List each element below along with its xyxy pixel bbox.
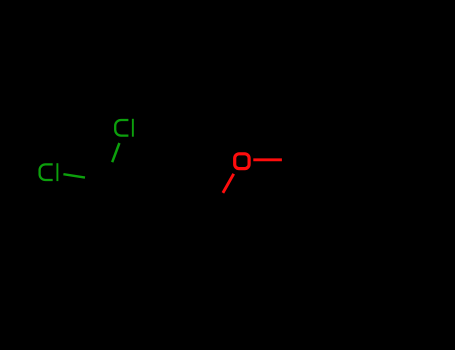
bond C1-O (carbon half): [217, 193, 223, 204]
bond C2-C1: [167, 196, 217, 204]
bond O-phenyl (red half, horizontal): [253, 158, 282, 161]
atom Cl (left): letter C: [40, 164, 53, 180]
invisible carbon skeleton (black on black): bond C3=C2 double: [107, 133, 389, 246]
bond C1-O (red half, diagonal): [223, 174, 234, 193]
benzene ring: [291, 133, 389, 246]
atom Cl (top): letter C: [115, 120, 128, 136]
atom O: ring glyph: [235, 154, 249, 169]
bond Cl(left)-C3 (green half): [63, 174, 85, 177]
bond Cl(top)-C3 (green half): [112, 143, 119, 162]
bond O-phenyl (carbon half): [282, 160, 291, 162]
atom Cl (top): letter l: [132, 119, 134, 137]
atom Cl (left): letter l: [56, 163, 58, 181]
